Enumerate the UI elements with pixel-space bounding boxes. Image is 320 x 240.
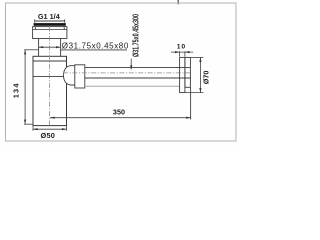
outlet dome elbow	[64, 66, 75, 85]
svg-text:Ø50: Ø50	[41, 131, 56, 140]
svg-text:350: 350	[113, 107, 125, 116]
svg-text:Ø70: Ø70	[202, 71, 211, 85]
page fold tick on top border	[177, 0, 179, 4]
dimension Ø31.75x0.45x80 : dim line with arrows	[39, 46, 61, 48]
outlet pipe top wall	[85, 66, 191, 68]
drawing border frame	[6, 3, 237, 141]
wall flange plate	[180, 57, 185, 92]
vertical centerline of trap body	[49, 27, 51, 126]
outlet pipe bottom wall	[85, 77, 191, 79]
cup rim seam	[33, 60, 67, 62]
dimension Ø70 : extension lines	[185, 57, 203, 92]
wall flange sleeve	[185, 57, 191, 87]
dimension 350 : line and arrows	[50, 87, 191, 119]
dimension Ø50 arrows	[33, 128, 38, 130]
inlet tailpipe walls	[39, 39, 61, 57]
dimension Ø70 arrows	[199, 57, 201, 62]
svg-text:G1 1/4: G1 1/4	[38, 12, 61, 21]
dimension 10 arrows	[175, 51, 180, 53]
outer tube faint lower edge	[85, 85, 180, 87]
svg-text:Ø31.75x0.45x80: Ø31.75x0.45x80	[62, 41, 129, 50]
cup upper seam	[33, 76, 67, 78]
svg-text:134: 134	[12, 82, 21, 98]
dimension Ø50 : extension stubs	[33, 126, 67, 131]
label leader line with arrow	[130, 59, 132, 70]
svg-text:10: 10	[177, 44, 186, 51]
G1 1/4 dimension line	[35, 19, 65, 22]
dimension 134 : extension lines	[24, 50, 38, 124]
dimension 134 arrows	[24, 50, 26, 55]
inlet compression nut	[33, 27, 67, 39]
dimension 10 : extension lines	[171, 51, 193, 56]
nut seam line	[33, 29, 67, 31]
black gasket washer	[34, 23, 66, 26]
trap cup body	[33, 56, 67, 125]
nut chamfer tick right	[63, 27, 65, 30]
nut chamfer tick left	[34, 27, 36, 30]
svg-text:Ø31.75x0.45x300: Ø31.75x0.45x300	[132, 14, 141, 57]
horizontal centerline of outlet pipe	[63, 72, 190, 74]
outlet compression nut	[75, 65, 85, 88]
label Ø31.75x0.45x80 with underline leader	[61, 49, 127, 51]
